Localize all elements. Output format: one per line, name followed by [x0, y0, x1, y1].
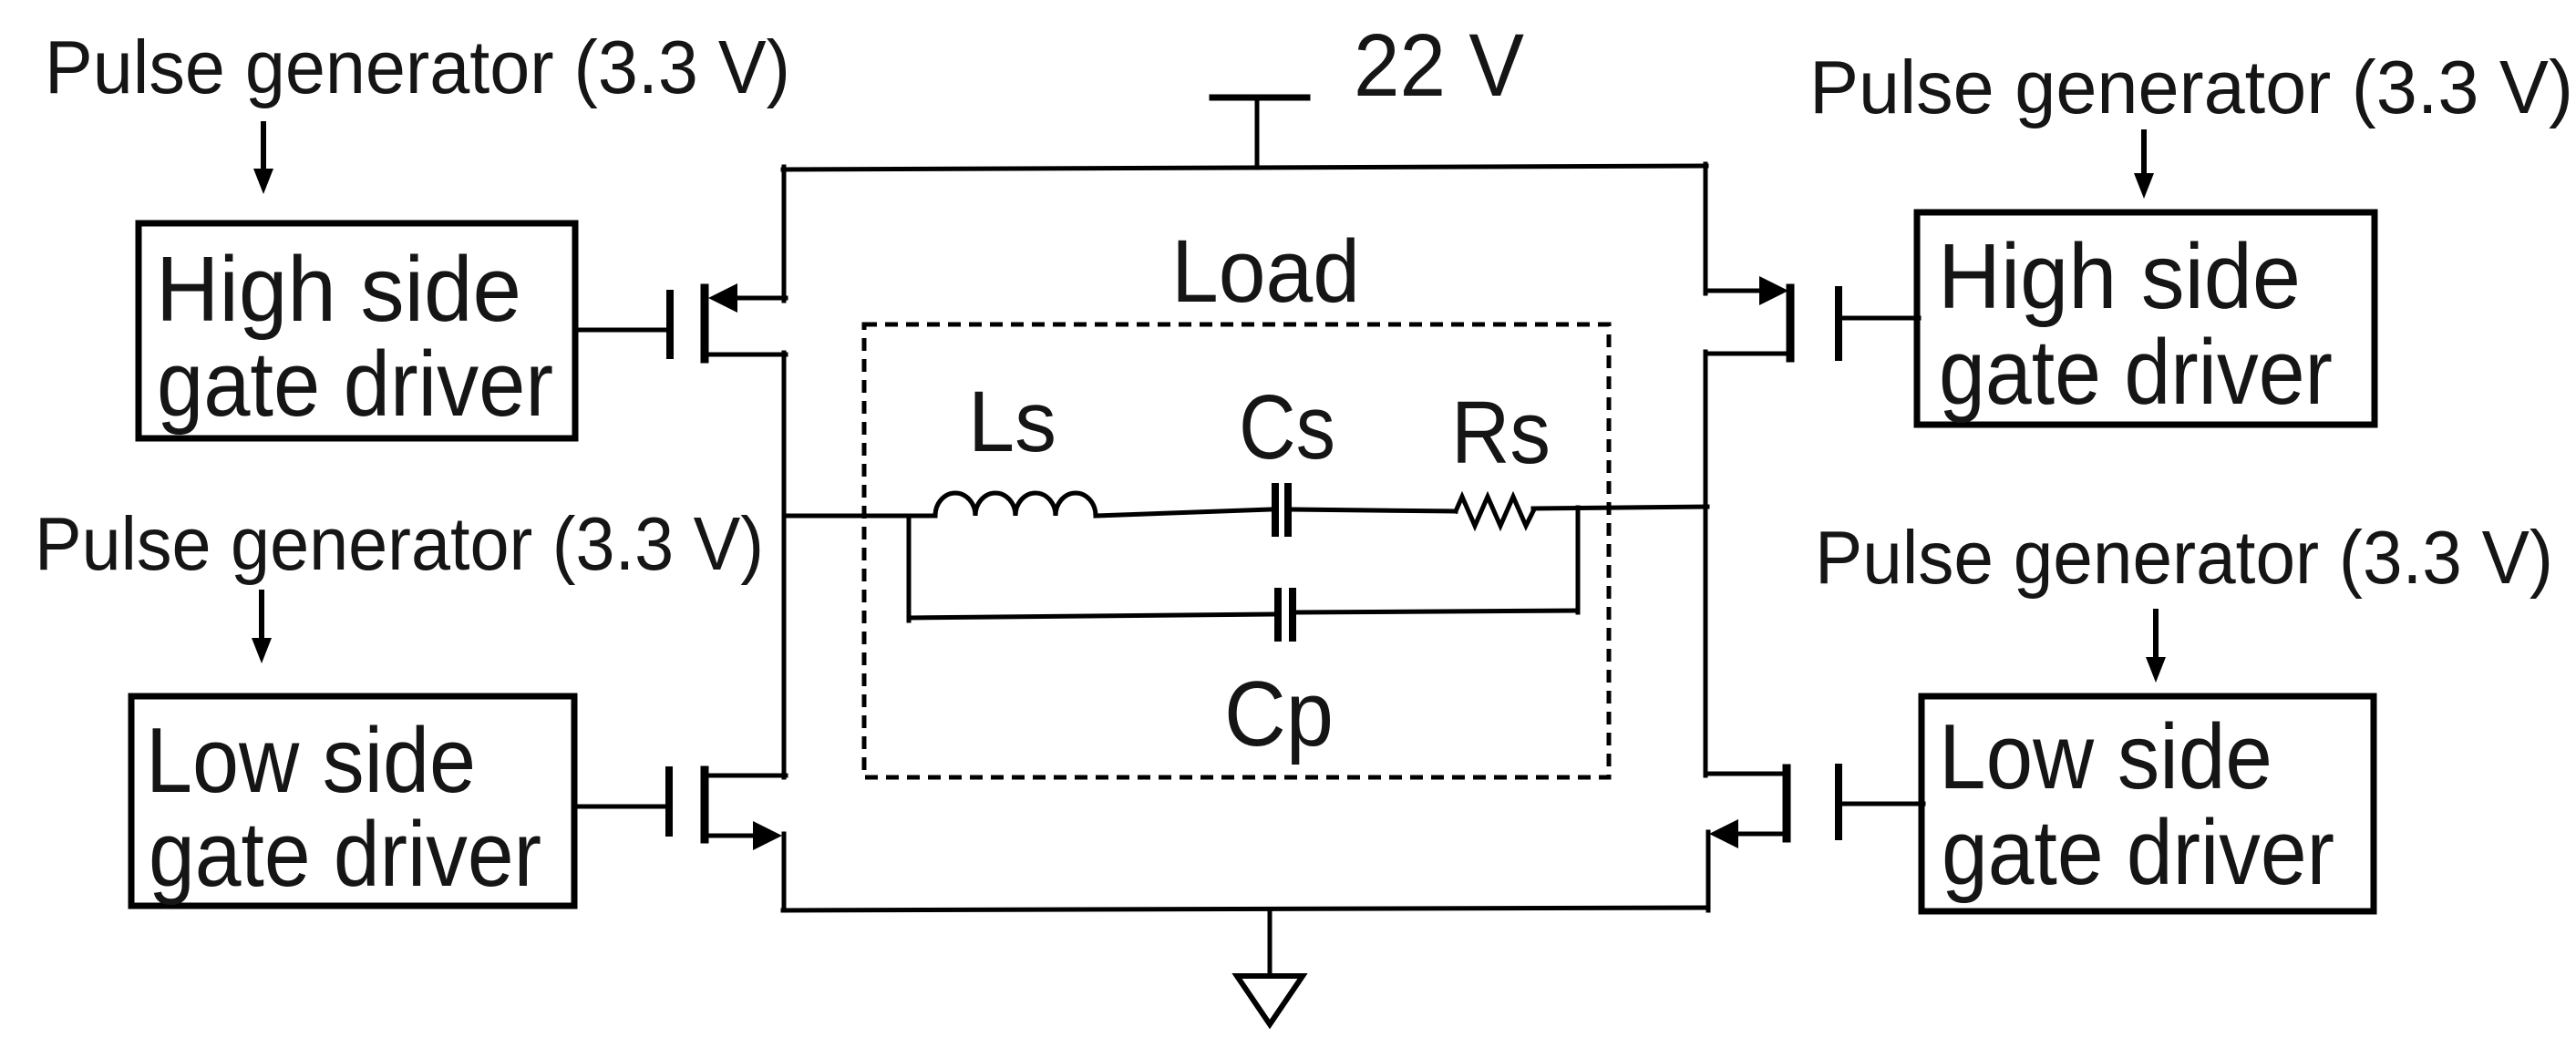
- svg-text:Pulse generator (3.3 V): Pulse generator (3.3 V): [35, 501, 764, 586]
- svg-text:Cp: Cp: [1224, 663, 1334, 765]
- svg-text:Low side: Low side: [1939, 706, 2272, 808]
- svg-text:gate driver: gate driver: [1939, 322, 2333, 424]
- svg-text:Ls: Ls: [968, 374, 1056, 470]
- svg-text:Rs: Rs: [1451, 383, 1551, 482]
- svg-text:Load: Load: [1171, 221, 1360, 321]
- svg-text:Pulse generator (3.3 V): Pulse generator (3.3 V): [1815, 515, 2553, 600]
- svg-text:High side: High side: [156, 239, 521, 341]
- svg-text:Low side: Low side: [146, 710, 476, 812]
- svg-text:gate driver: gate driver: [157, 334, 553, 436]
- svg-text:gate driver: gate driver: [1942, 802, 2334, 904]
- svg-text:22 V: 22 V: [1354, 15, 1524, 115]
- svg-text:gate driver: gate driver: [149, 804, 541, 906]
- svg-text:Cs: Cs: [1239, 376, 1335, 478]
- svg-text:High side: High side: [1938, 226, 2301, 328]
- svg-text:Pulse generator (3.3 V): Pulse generator (3.3 V): [45, 25, 790, 109]
- svg-text:Pulse generator (3.3 V): Pulse generator (3.3 V): [1809, 45, 2573, 129]
